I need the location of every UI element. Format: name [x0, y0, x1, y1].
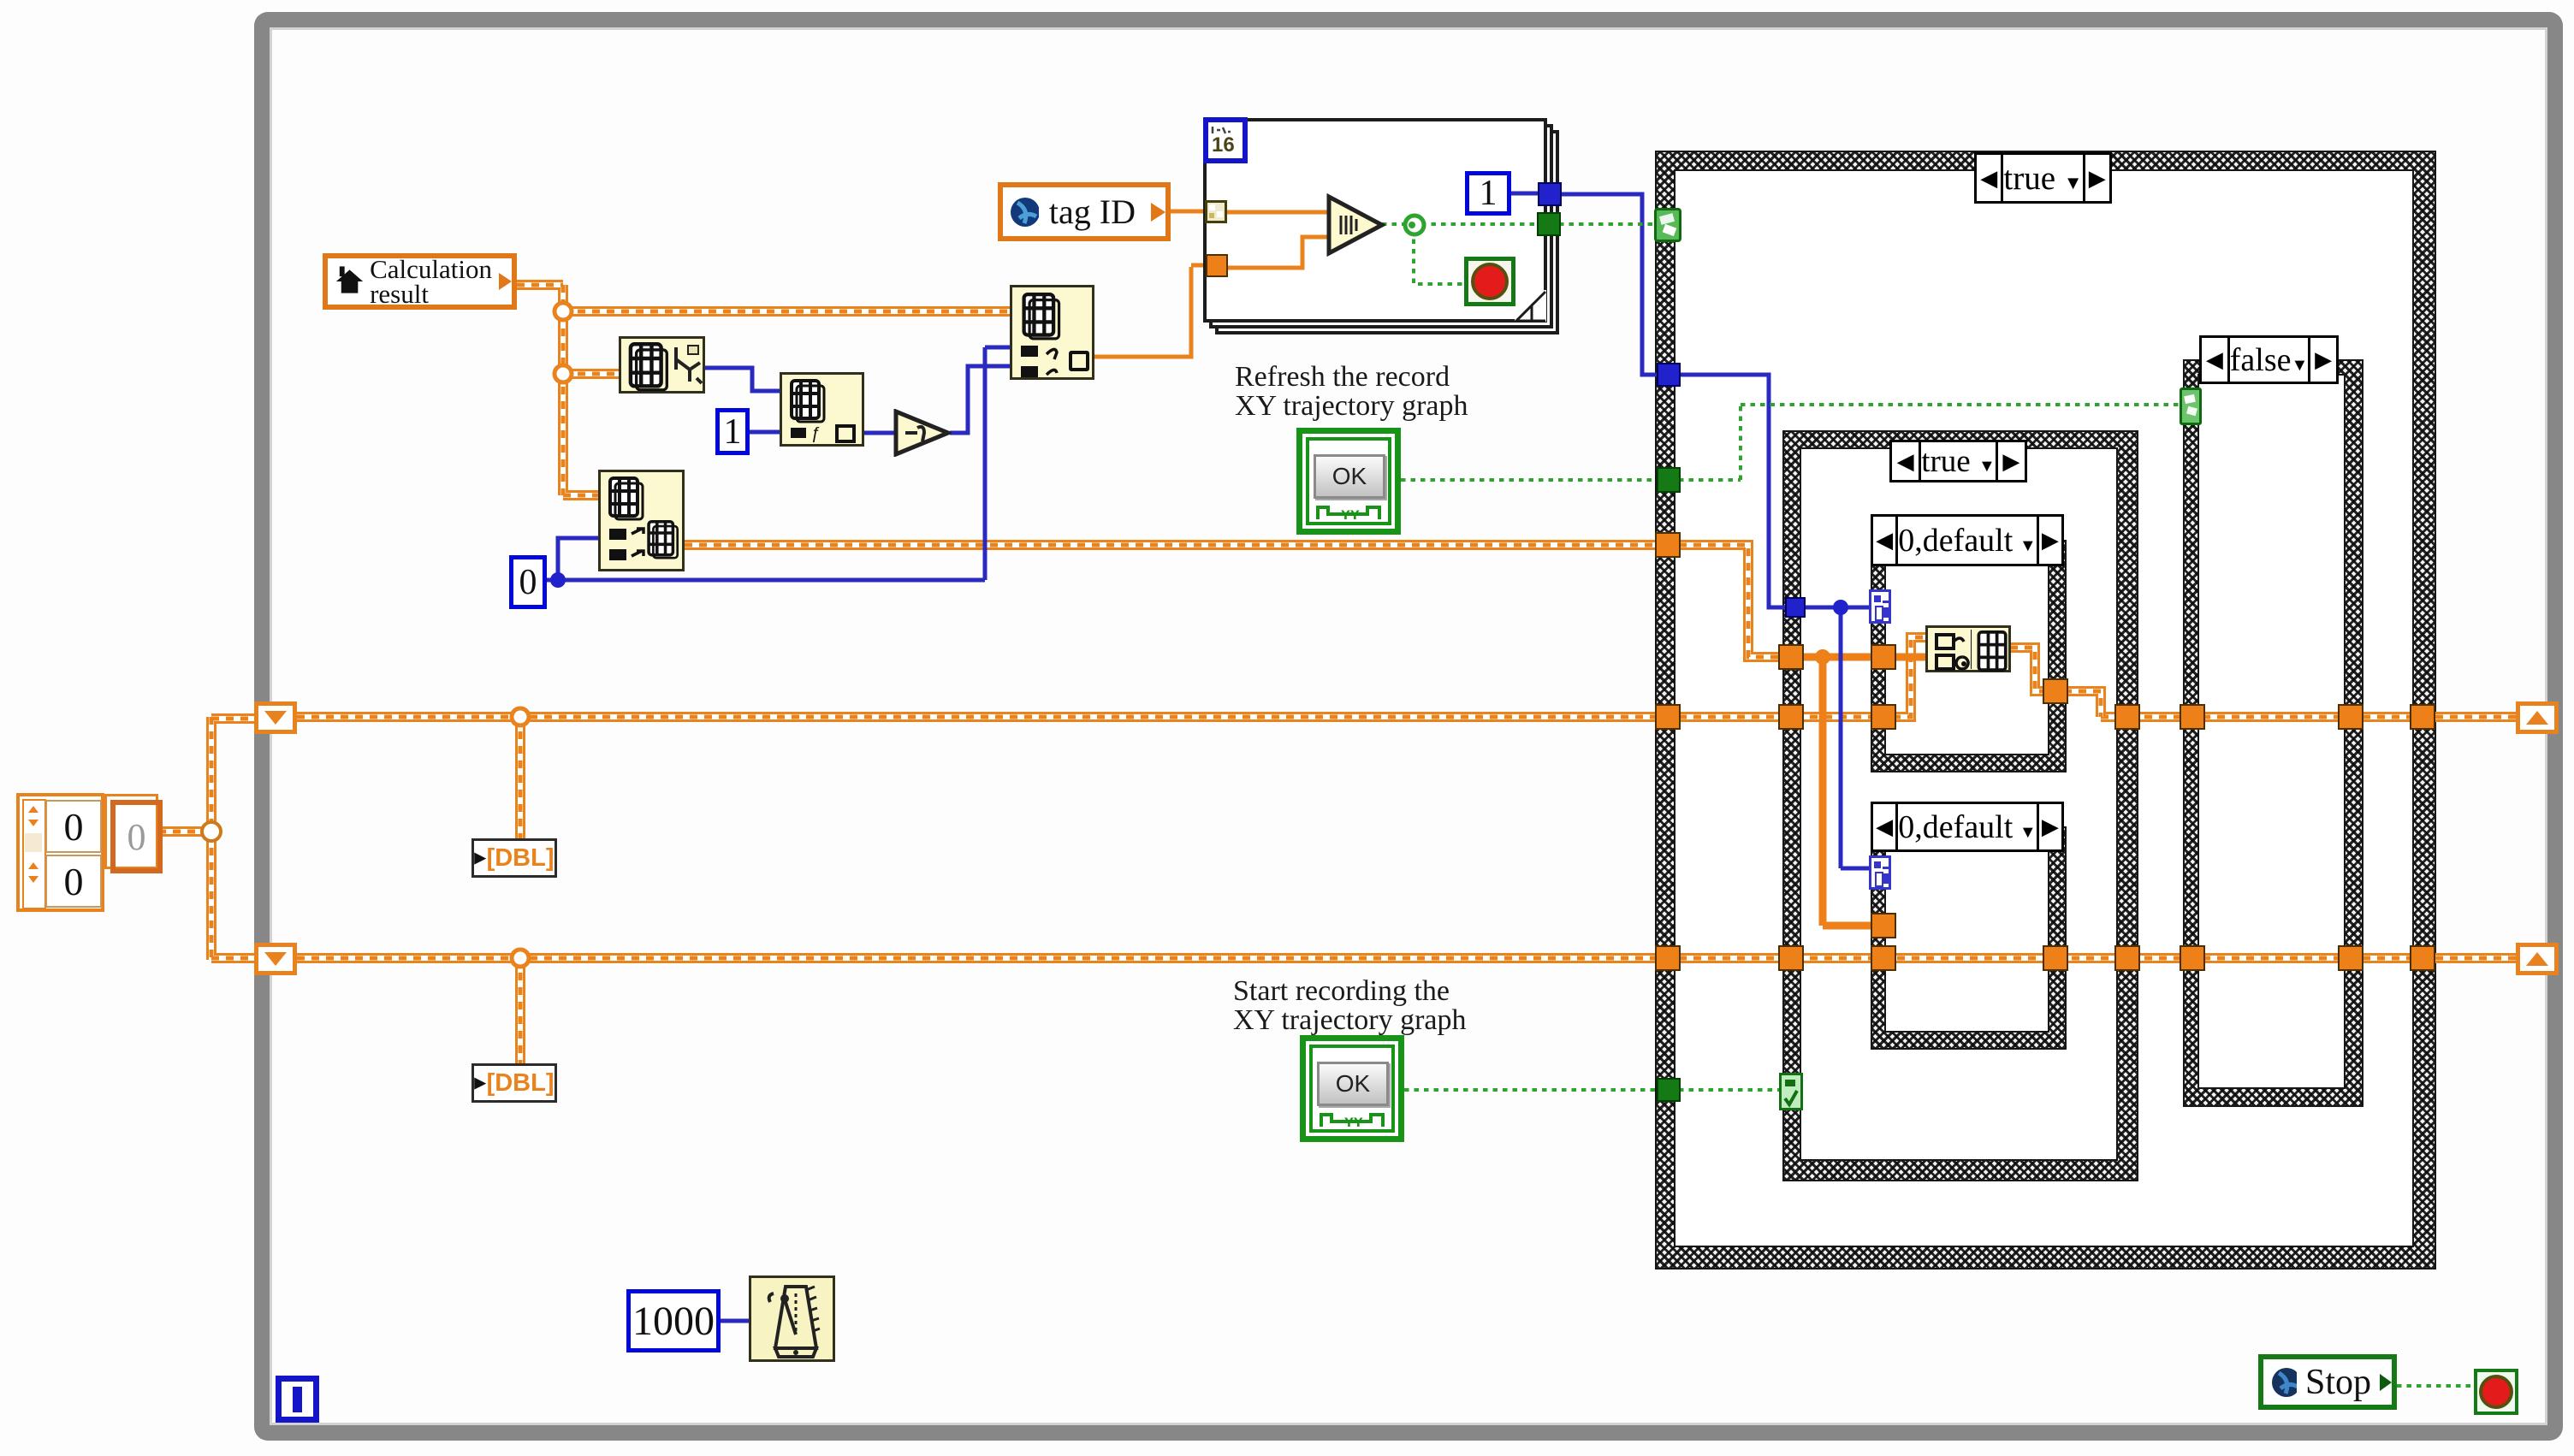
case selector tunnel false case	[2180, 388, 2202, 425]
case label: 0,default #1	[1871, 514, 2064, 566]
tunnel orange at 2201,838	[1871, 704, 1896, 730]
case label: 0,default #2	[1871, 802, 2064, 852]
wire: OK1 boolean wire	[1401, 405, 2185, 480]
text: refresh the record	[1235, 363, 1468, 421]
wire: OK2 boolean wire	[1404, 1088, 1784, 1092]
wire: subvi const 1 to tunnel	[1509, 192, 1538, 196]
tunnel orange subvi input	[1206, 254, 1228, 277]
subvi stacked frame layers	[1215, 130, 1559, 334]
shift register right bottom	[2516, 943, 2559, 975]
tunnel orange at 2831,838	[2410, 704, 2435, 730]
node: wait ms (metronome)	[749, 1275, 835, 1362]
green tunnel big case from OK2	[1657, 1078, 1681, 1102]
green tunnel subvi output	[1537, 212, 1561, 236]
wire: 1000 to wait	[721, 1319, 749, 1323]
subvi page curl	[1515, 290, 1547, 323]
wire: main array wire row2	[297, 953, 2526, 963]
wire: subvi const 1 to tunnel	[1509, 192, 1538, 196]
wire: thick array wire to 0,default cases	[1800, 657, 1876, 926]
case structure: 0,default #1	[1871, 540, 2067, 772]
tunnel orange at 2093,768	[1778, 644, 1804, 670]
node: index array double (node3)	[598, 470, 685, 571]
wire: 0,default-1 output rejoin	[2064, 691, 2101, 717]
junction dot: cluster wire	[202, 822, 221, 841]
terminal: loop stop (red)	[2474, 1369, 2518, 1415]
wire: subvi internal boolean	[1382, 224, 1537, 284]
wire: increment to insert node	[950, 366, 1010, 433]
node: insert into array (big)	[1010, 285, 1094, 380]
wire: subvi i32 output into big case	[1557, 194, 1872, 868]
blue icon tunnel case1	[1869, 589, 1891, 624]
wire: DBL branch 2	[515, 958, 525, 1063]
constant 1	[715, 408, 750, 455]
indicator DBL 2	[472, 1063, 557, 1103]
subvi 16-bit icon	[1203, 117, 1248, 163]
boolean tunnel with checkmark inner case	[1779, 1073, 1803, 1110]
control: OK button start	[1300, 1035, 1404, 1142]
wire: insert node output to subvi	[1094, 265, 1207, 357]
junction dot: calc-result branch 1	[555, 303, 572, 320]
wire: main array wire row1 left of 0,default-1	[297, 712, 1876, 722]
tunnel orange at 1949,637	[1655, 532, 1681, 558]
control: Stop	[2258, 1354, 2397, 1410]
constant 1000	[626, 1289, 721, 1352]
tunnel orange at 1949,838	[1655, 704, 1681, 730]
subvi triangle node	[1326, 193, 1385, 257]
junction dot: blue inside inner case	[1833, 600, 1848, 615]
case label: big true	[1974, 152, 2112, 204]
blue icon tunnel case2	[1869, 855, 1891, 890]
indicator DBL 1	[472, 838, 557, 878]
wire: const 1 to node2	[750, 430, 780, 435]
wire: subvi internal boolean	[1382, 224, 1537, 284]
wire: subvi boolean out to selector	[1559, 222, 1657, 226]
wire: main array wire row1 right segment	[2101, 712, 2526, 722]
tunnel orange at 2831,1120	[2410, 945, 2435, 971]
tunnel orange at 2747,838	[2338, 704, 2363, 730]
case structure: inner TRUE case	[1782, 430, 2138, 1181]
case selector tunnel big case	[1654, 208, 1681, 242]
node: increment triangle	[893, 409, 952, 457]
subvi frame main	[1203, 118, 1547, 323]
node: array subset (node2)	[780, 372, 864, 447]
tunnel orange at 2562,838	[2180, 704, 2205, 730]
wire: cluster constant feeder	[158, 717, 259, 960]
array constant with two 0 elements	[16, 793, 104, 912]
node: build xy graph helper (node1)	[619, 336, 705, 394]
tunnel orange at 1949,1120	[1655, 945, 1681, 971]
case structure: big TRUE case	[1655, 151, 2436, 1270]
junction dot: const 0	[550, 572, 566, 588]
case label: false	[2199, 335, 2339, 384]
control: OK button refresh	[1296, 428, 1401, 535]
subvi green circle node	[1401, 211, 1428, 239]
text: start recording	[1233, 977, 1467, 1035]
wire: DBL branch 1	[515, 717, 525, 838]
constant 0	[509, 555, 547, 609]
shift register left top	[254, 701, 297, 734]
wire: tag id wire	[1171, 210, 1207, 214]
shift register right top	[2516, 701, 2559, 734]
case structure: FALSE case	[2183, 359, 2363, 1107]
control: Calculation result	[323, 253, 517, 310]
iteration terminal	[276, 1376, 319, 1423]
tunnel orange at 2562,1120	[2180, 945, 2205, 971]
cluster shell constant	[104, 794, 158, 869]
green tunnel big case from OK1	[1657, 467, 1681, 493]
wire: node1 to node2	[705, 368, 780, 391]
subvi constant 1	[1465, 171, 1511, 216]
wire: calculation result to insert node	[517, 285, 1010, 495]
wire: subvi internal input 2	[1226, 237, 1328, 268]
wire: subvi internal input 2	[1226, 237, 1328, 268]
wire: 0,default-1 node output	[2010, 648, 2054, 691]
subvi red stop button	[1464, 257, 1515, 306]
shift register left bottom	[254, 943, 297, 975]
tunnel orange at 2747,1120	[2338, 945, 2363, 971]
tunnel orange at 2486,1120	[2114, 945, 2140, 971]
wire: stop boolean wire	[2397, 1384, 2476, 1388]
subvi checkered input tunnel	[1205, 200, 1227, 223]
junction dot: main wire row1 DBL	[512, 708, 529, 725]
wire: thick into node4	[1893, 654, 1925, 661]
node: replace array subset (node4)	[1925, 625, 2011, 672]
wire: subvi internal input 1	[1225, 210, 1328, 215]
junction dot: calc-result branch 2	[555, 365, 572, 382]
tunnel orange at 2486,838	[2114, 704, 2140, 730]
subvi blue output tunnel	[1538, 182, 1562, 206]
case structure: 0,default #2	[1871, 826, 2067, 1050]
wire: const 0 wire	[547, 347, 1010, 580]
tunnel orange at 2402,808	[2043, 678, 2068, 704]
wire: into 0,default-1 node lower input	[1893, 637, 1925, 717]
control: tag ID	[998, 182, 1171, 241]
case label: inner true	[1889, 440, 2027, 482]
wire: node3 wire inside big case	[1679, 545, 1780, 657]
tunnel orange at 2093,1120	[1778, 945, 1804, 971]
wire: node2 to increment	[864, 431, 895, 435]
junction dot: main wire row2 DBL	[512, 950, 529, 967]
big case blue tunnel	[1657, 363, 1681, 387]
tunnel orange at 2201,768	[1871, 644, 1896, 670]
tunnel orange at 2201,1082	[1871, 913, 1896, 938]
tunnel orange at 2402,1120	[2043, 945, 2068, 971]
wire: node3 output long wire	[685, 540, 1667, 550]
tunnel orange at 2093,838	[1778, 704, 1804, 730]
wire: subvi internal input 1	[1225, 210, 1328, 215]
tunnel orange at 2201,1120	[1871, 945, 1896, 971]
junction dot: thick orange	[1815, 649, 1830, 665]
blue junction square inner border	[1785, 597, 1806, 618]
